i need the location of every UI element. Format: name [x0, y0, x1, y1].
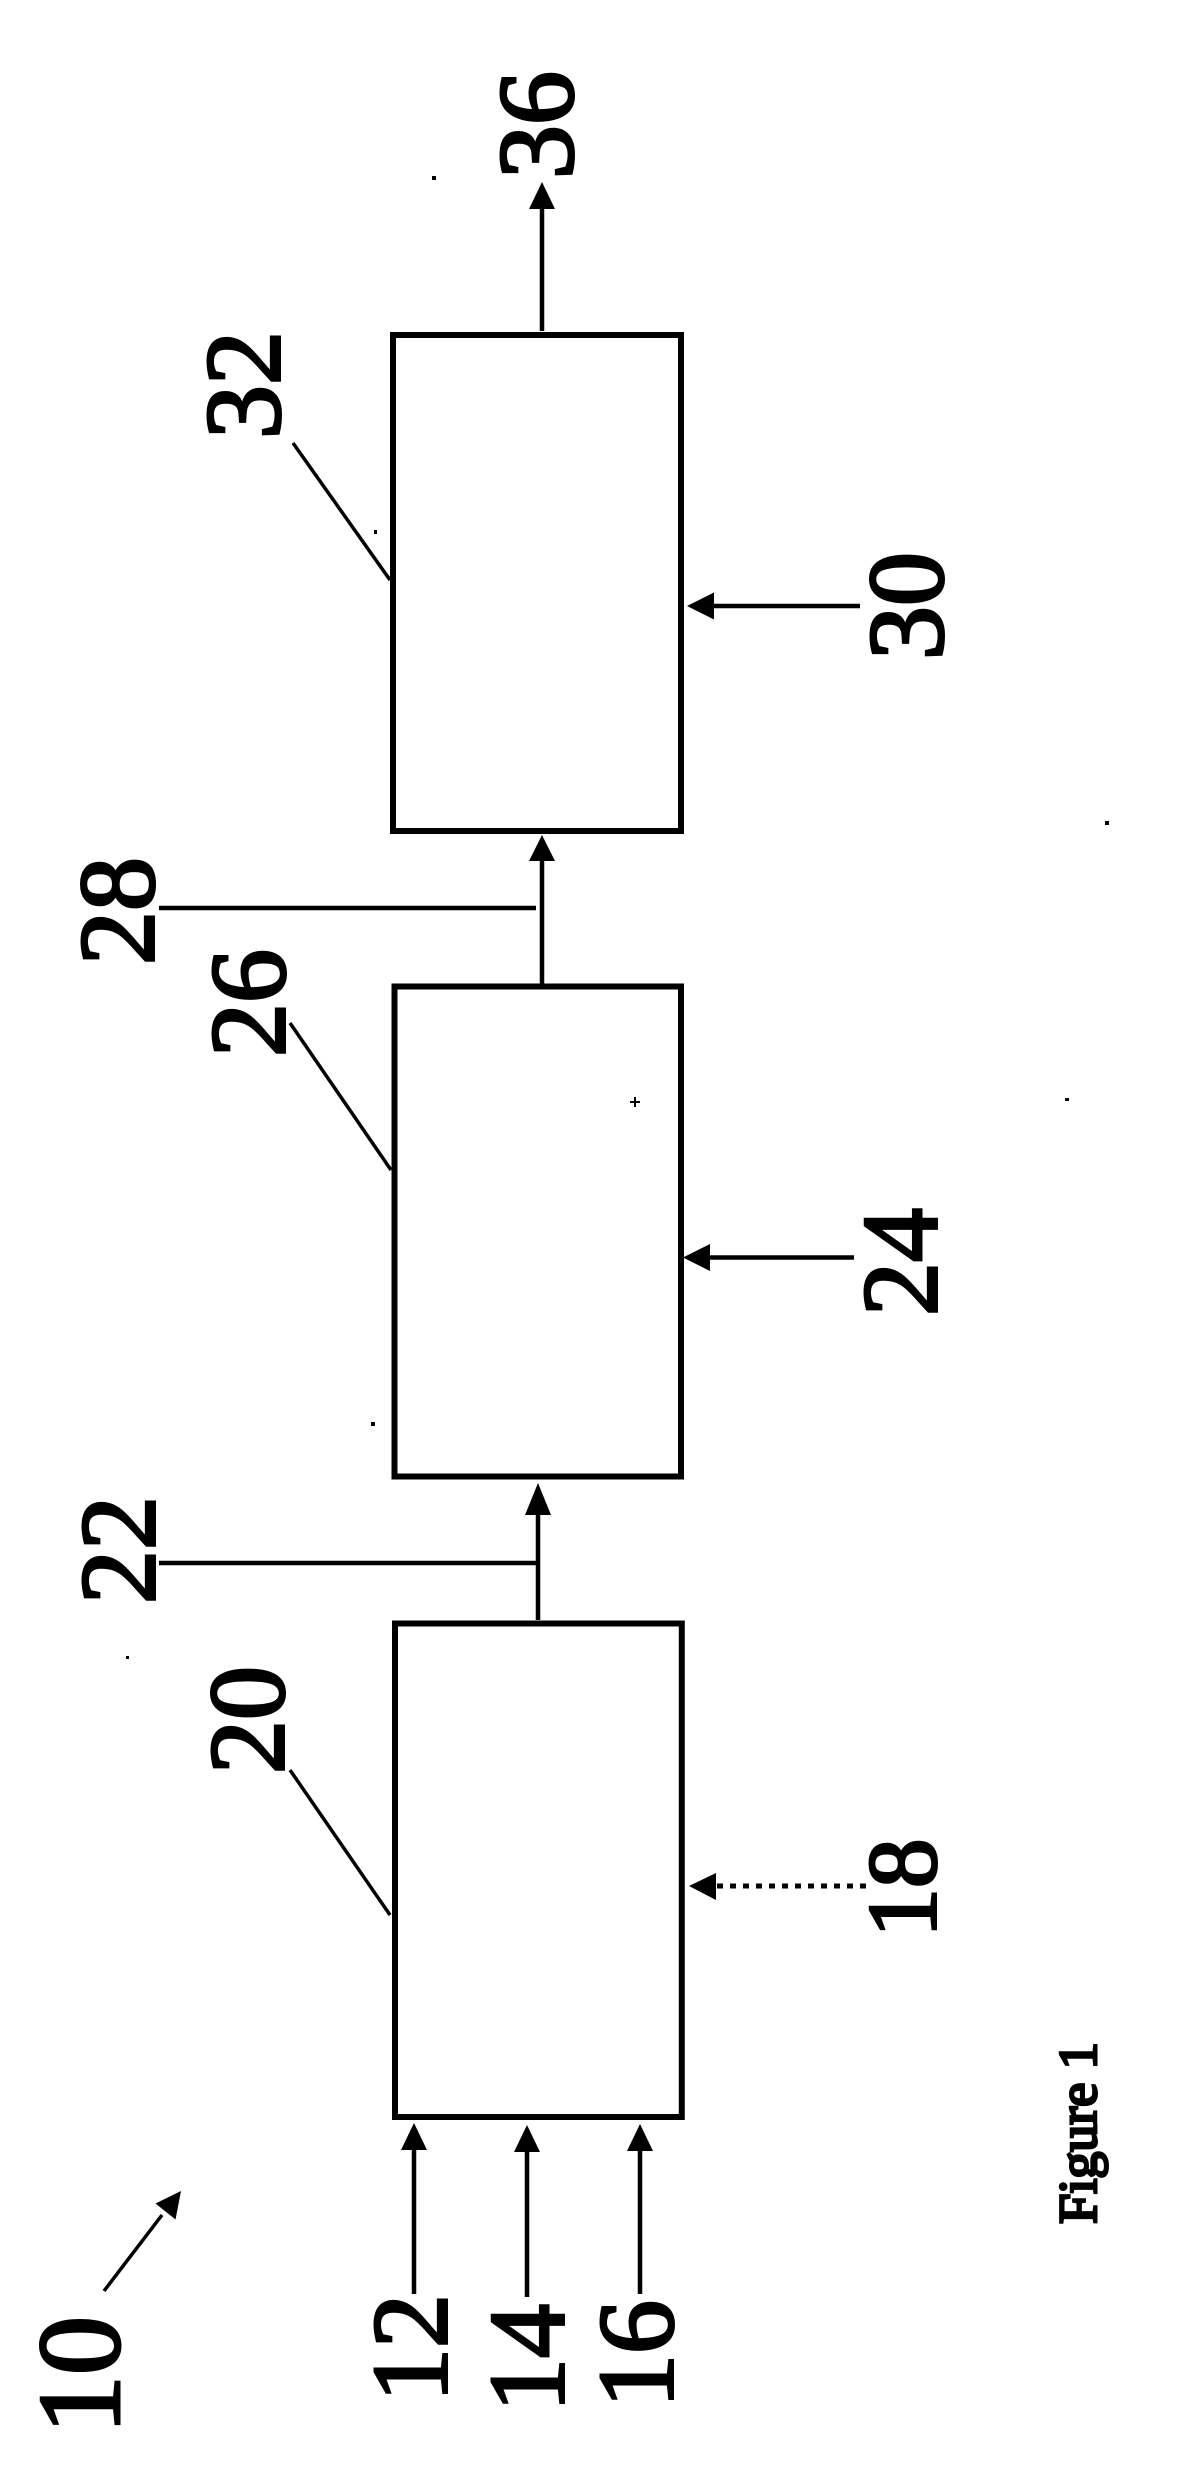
- arrow 10 pointer: [104, 2191, 181, 2291]
- svg-text:24: 24: [842, 1208, 961, 1316]
- leader line 28: [159, 906, 536, 911]
- block 26 (middle box): [395, 987, 682, 1477]
- svg-text:36: 36: [478, 71, 597, 179]
- speck plus 2: [630, 1097, 640, 1107]
- wire arrow from bottom box to middle box (22): [525, 1483, 551, 1620]
- speck dot 4: [126, 1656, 129, 1659]
- input arrow 12: [401, 2123, 427, 2294]
- svg-text:18: 18: [849, 1839, 958, 1938]
- speck dot 5: [1105, 821, 1109, 825]
- svg-text:28: 28: [59, 857, 178, 965]
- svg-text:32: 32: [185, 331, 304, 439]
- arrow 24 into middle box: [683, 1244, 854, 1271]
- svg-text:20: 20: [189, 1666, 308, 1774]
- svg-text:14: 14: [469, 2304, 588, 2412]
- wire output arrow to 36: [529, 182, 555, 331]
- svg-text:12: 12: [352, 2294, 471, 2402]
- svg-text:30: 30: [848, 552, 967, 660]
- speck dot 3: [371, 1422, 375, 1426]
- block 32 (top box): [393, 335, 681, 831]
- speck dot 6: [1065, 1098, 1069, 1101]
- leader line 26: [290, 1023, 391, 1170]
- dotted arrow 18 into bottom box: [689, 1873, 866, 1900]
- svg-text:22: 22: [60, 1496, 179, 1604]
- svg-text:26: 26: [190, 949, 309, 1057]
- leader line 32: [293, 443, 390, 580]
- arrow 30 into top box: [687, 593, 860, 620]
- svg-text:16: 16: [578, 2300, 697, 2408]
- speck dot 1: [432, 176, 436, 180]
- speck dot 7: [374, 530, 377, 534]
- leader line 20: [290, 1770, 390, 1915]
- block 20 (bottom box): [395, 1624, 682, 2118]
- wire arrow from middle box to top box (28): [529, 835, 555, 984]
- svg-text:10: 10: [14, 2316, 145, 2434]
- input arrow 14: [514, 2125, 540, 2297]
- svg-text:Figure 1: Figure 1: [1048, 2042, 1108, 2224]
- leader line 22: [159, 1561, 536, 1566]
- input arrow 16: [627, 2124, 653, 2294]
